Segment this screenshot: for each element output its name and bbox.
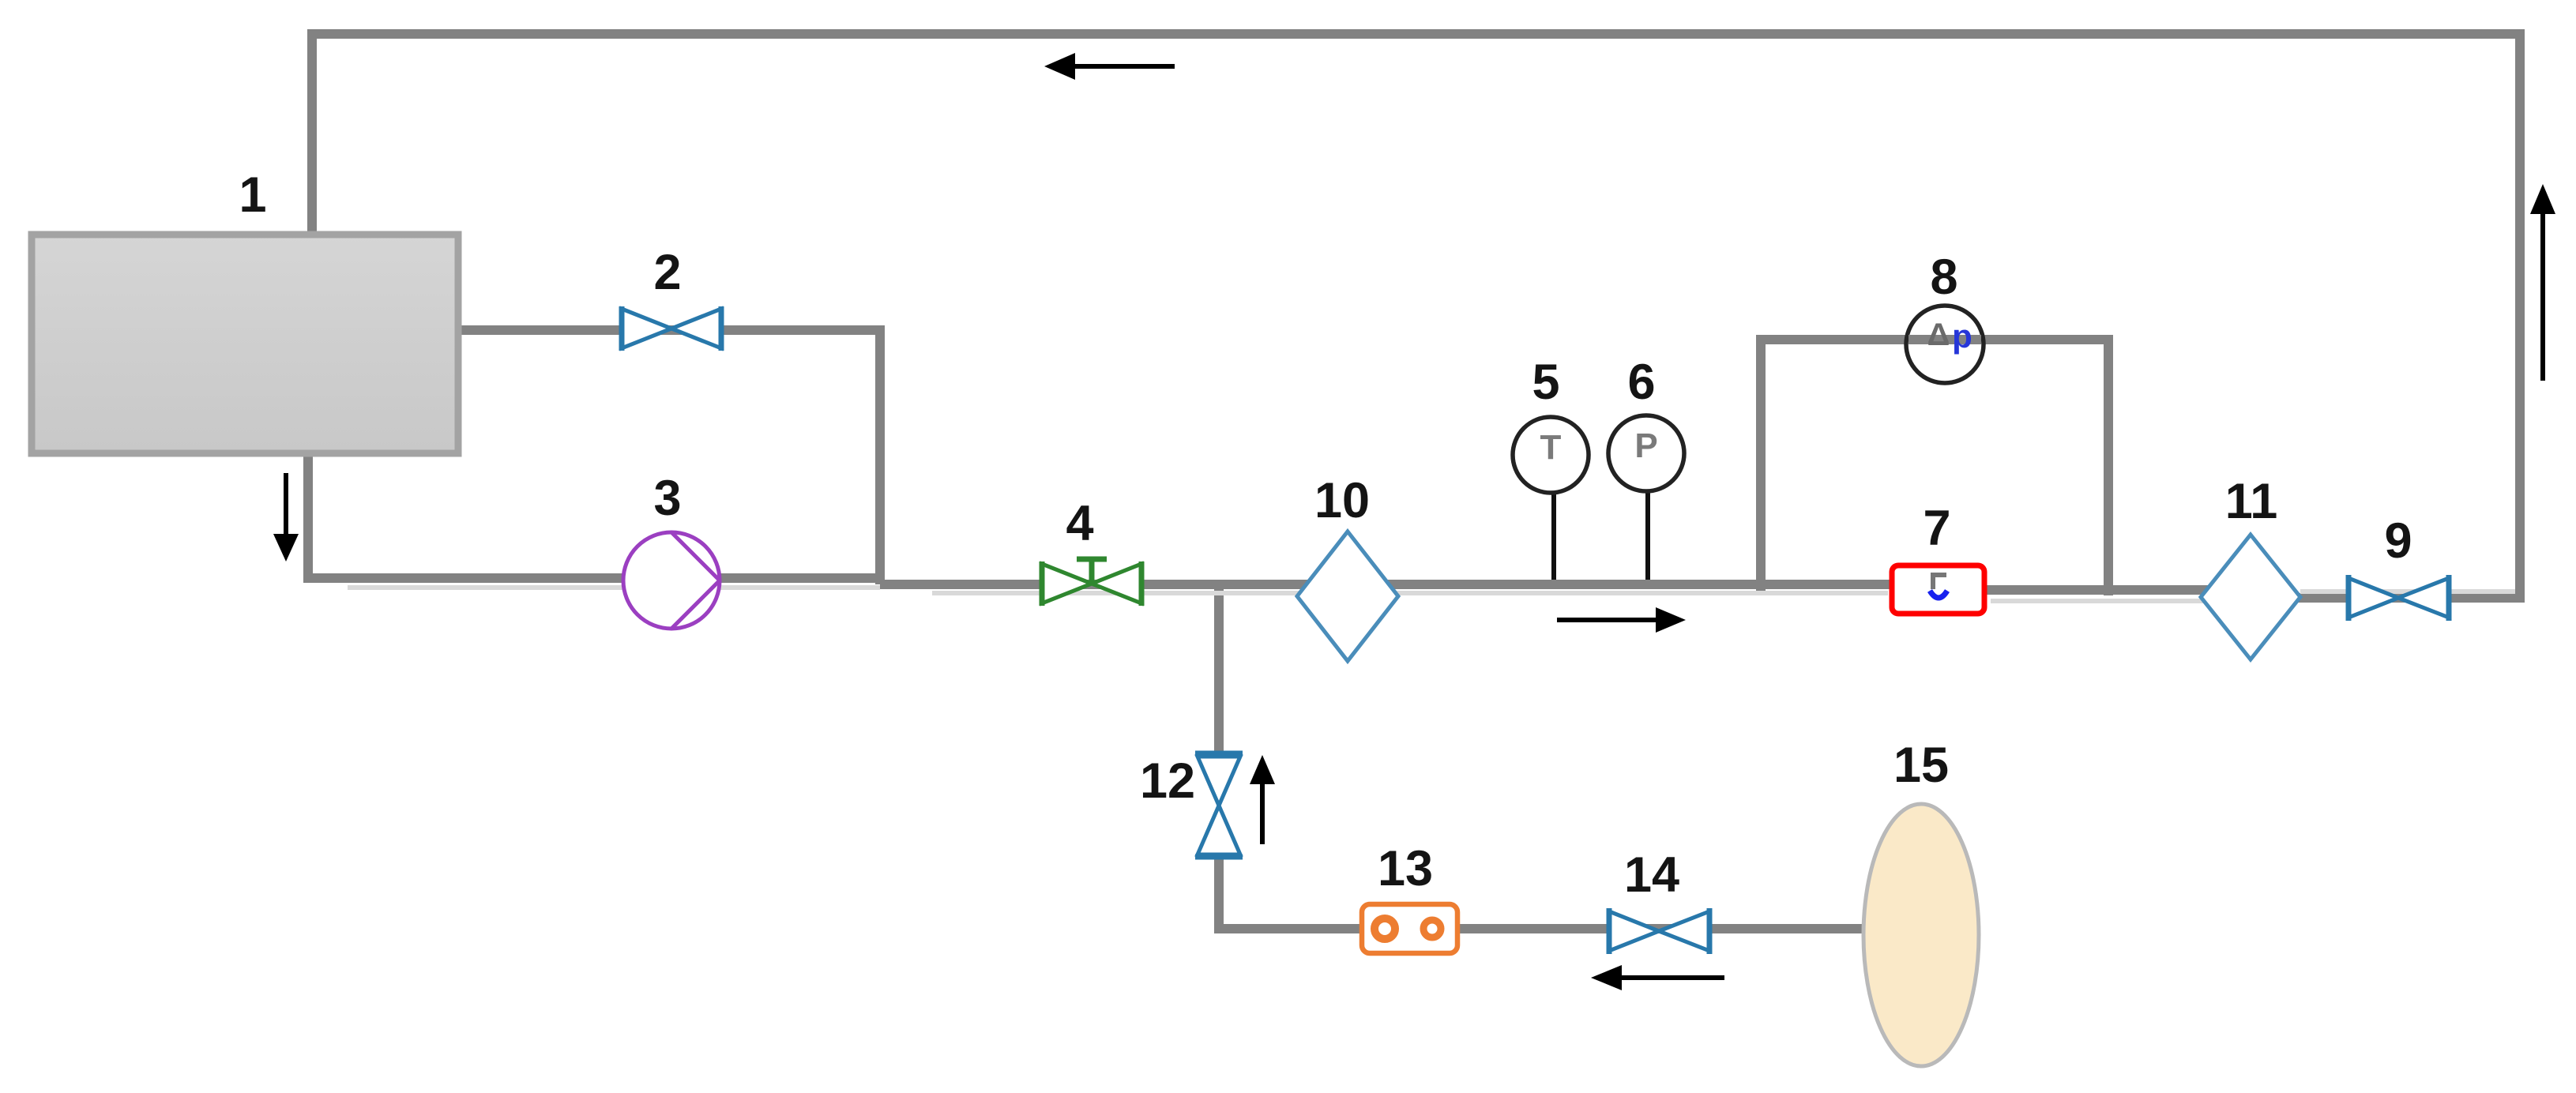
svg-text:15: 15 — [1893, 738, 1949, 793]
svg-text:6: 6 — [1627, 355, 1655, 410]
svg-text:8: 8 — [1930, 250, 1957, 305]
svg-text:7: 7 — [1923, 501, 1950, 556]
svg-text:1: 1 — [239, 167, 266, 223]
svg-text:p: p — [1952, 317, 1972, 355]
svg-text:2: 2 — [653, 245, 681, 300]
svg-text:10: 10 — [1314, 473, 1370, 528]
svg-text:14: 14 — [1624, 847, 1679, 903]
svg-text:5: 5 — [1532, 355, 1559, 410]
svg-text:P: P — [1634, 426, 1657, 465]
svg-text:4: 4 — [1066, 496, 1093, 551]
svg-text:9: 9 — [2384, 513, 2412, 569]
svg-text:Δ: Δ — [1927, 317, 1950, 352]
svg-text:3: 3 — [653, 471, 681, 526]
svg-text:11: 11 — [2225, 474, 2278, 529]
svg-text:12: 12 — [1140, 753, 1195, 809]
svg-text:13: 13 — [1378, 841, 1433, 896]
svg-text:T: T — [1540, 428, 1562, 467]
